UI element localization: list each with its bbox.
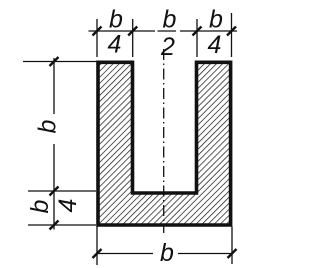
svg-text:b: b: [160, 239, 174, 267]
svg-text:b: b: [34, 119, 62, 133]
svg-text:2: 2: [160, 33, 175, 61]
left extension lines: [23, 62, 97, 226]
svg-text:b: b: [109, 6, 123, 34]
left oblique tick marks: [50, 57, 59, 230]
bottom dimension line (b): [97, 253, 232, 255]
U-channel cross-section body (hatched): [98, 62, 231, 225]
left dimension line (b and b/4): [53, 58, 55, 230]
bottom extension lines: [97, 227, 232, 266]
label b/4 (top right): [208, 6, 224, 60]
top dimension line (b/4, b/2, b/4): [89, 30, 238, 32]
svg-text:4: 4: [54, 199, 82, 213]
bottom oblique tick marks: [93, 249, 237, 258]
vertical centerline (dash-dot axis): [163, 49, 165, 233]
top extension lines: [97, 13, 232, 57]
label b/4 (top left): [108, 6, 124, 59]
svg-text:b: b: [26, 199, 54, 213]
label b/4 (left bottom, rotated): [26, 199, 82, 214]
svg-text:b: b: [163, 6, 177, 34]
svg-text:4: 4: [208, 31, 222, 59]
label b/2 (top centre): [160, 6, 177, 62]
svg-text:4: 4: [108, 31, 122, 59]
svg-text:b: b: [209, 6, 223, 34]
top oblique tick marks: [93, 27, 237, 36]
